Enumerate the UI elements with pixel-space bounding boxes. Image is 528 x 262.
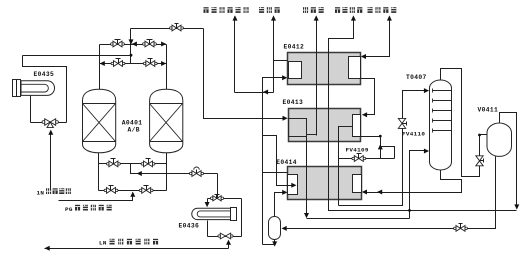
svg-text:E0412: E0412 — [284, 43, 305, 50]
svg-text:FV4109: FV4109 — [346, 147, 369, 154]
svg-text:A/B: A/B — [128, 127, 140, 134]
svg-text:LN: LN — [99, 240, 107, 247]
svg-text:PG: PG — [65, 206, 73, 213]
svg-text:E0413: E0413 — [283, 99, 304, 106]
svg-text:A0401: A0401 — [122, 119, 143, 126]
svg-text:E0414: E0414 — [276, 159, 297, 166]
svg-text:FV4110: FV4110 — [402, 130, 425, 137]
svg-text:T0407: T0407 — [406, 74, 427, 81]
svg-text:E0436: E0436 — [179, 223, 200, 230]
svg-text:E0435: E0435 — [34, 71, 55, 78]
svg-text:V0411: V0411 — [478, 107, 499, 114]
svg-text:1N: 1N — [37, 189, 45, 196]
